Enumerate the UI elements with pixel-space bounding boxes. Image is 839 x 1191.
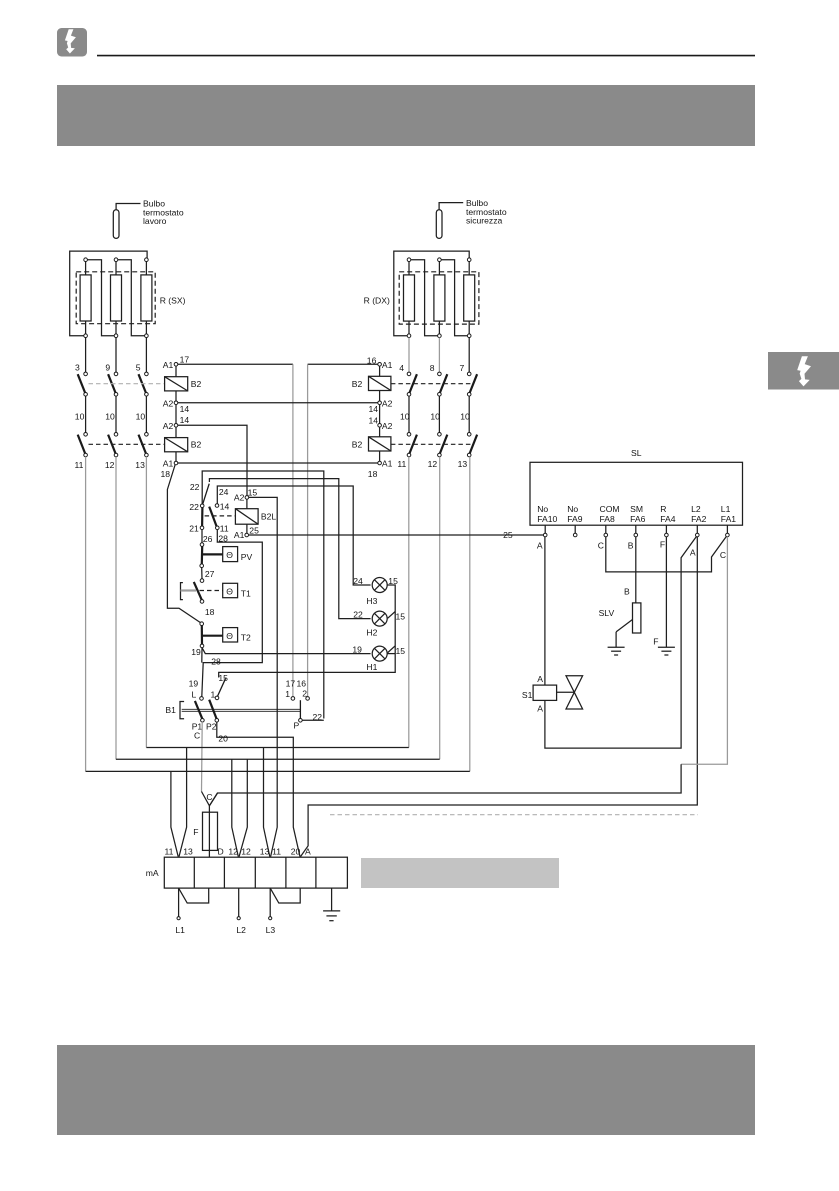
resistor R3 right bank — [464, 262, 475, 335]
wire net 18 drop (A1 left to T2 switch) — [167, 465, 201, 624]
dashed linkage right row1 — [391, 383, 473, 385]
svg-text:COM: COM — [600, 504, 620, 514]
svg-text:B2: B2 — [352, 440, 363, 450]
svg-text:FA10: FA10 — [537, 514, 557, 524]
thermal switch PV — [200, 530, 253, 579]
svg-text:A2: A2 — [382, 421, 393, 431]
svg-text:8: 8 — [430, 363, 435, 373]
svg-text:No: No — [537, 504, 548, 514]
svg-text:L3: L3 — [266, 925, 276, 935]
svg-text:L1: L1 — [721, 504, 731, 514]
wire drop net 13 to strip — [179, 748, 187, 857]
contactor pole 7 (right row1 col3) — [460, 363, 478, 396]
bulb thermostat lavoro (left sensor bulb) — [113, 199, 184, 239]
wire node P to net 22 riser — [302, 719, 324, 721]
svg-text:No: No — [567, 504, 578, 514]
svg-text:12: 12 — [241, 846, 251, 856]
svg-text:14: 14 — [369, 404, 379, 414]
svg-text:Θ: Θ — [226, 587, 233, 597]
svg-text:21: 21 — [189, 523, 199, 533]
jumper terminal 1-2 — [179, 888, 209, 903]
svg-text:A: A — [537, 674, 543, 684]
phase bus 3 (left 11 to right 13) — [86, 770, 470, 772]
wire net 16 (right A1 to B1 terminal 2) — [308, 363, 378, 365]
svg-text:B2: B2 — [352, 379, 363, 389]
switch blade 15 to terminal 1 — [217, 678, 225, 696]
svg-text:11: 11 — [397, 459, 406, 469]
svg-text:17: 17 — [180, 355, 190, 365]
svg-text:22: 22 — [190, 482, 200, 492]
svg-text:B2L: B2L — [261, 512, 277, 522]
node 1 (B1 pole 2 top) — [215, 696, 219, 700]
main switch B1 linkage bar — [182, 708, 301, 710]
dashed enclosure R (SX) — [76, 272, 155, 324]
svg-text:T2: T2 — [241, 633, 251, 643]
svg-text:A: A — [305, 846, 311, 856]
svg-text:C: C — [720, 550, 726, 560]
resistor bank R (DX) outer wiring loop — [394, 251, 469, 336]
wire right bank drops to contactor poles — [408, 338, 410, 373]
contactor pole 11 (right row2 col1) — [397, 433, 417, 469]
resistor bank R (SX) outer wiring loop — [70, 251, 147, 336]
svg-text:L2: L2 — [691, 504, 701, 514]
svg-text:11: 11 — [220, 523, 229, 533]
wire net L2 (FA2 to terminal strip A) — [301, 537, 698, 857]
dashed linkage to relay B2L — [205, 515, 236, 517]
pin FA2 — [690, 525, 699, 557]
svg-text:25: 25 — [503, 530, 513, 540]
svg-text:2: 2 — [302, 688, 307, 698]
svg-text:15: 15 — [396, 611, 406, 621]
pressure switch S1 — [522, 674, 557, 714]
svg-text:13: 13 — [135, 460, 145, 470]
right edge lightning tab — [768, 352, 839, 390]
terminal strip mA — [146, 857, 348, 888]
wire net 22 (switch 22 top to pole P riser) — [202, 471, 324, 719]
mains feed L3 — [266, 888, 276, 935]
solenoid valve coil SLV — [599, 603, 641, 633]
svg-text:A1: A1 — [163, 360, 174, 370]
svg-text:F: F — [193, 827, 198, 837]
wire drop net 13b to strip — [264, 748, 270, 857]
B1 pole P vertical blade — [299, 700, 301, 718]
wire net C (FA8 to FA1) — [606, 536, 727, 572]
svg-text:14: 14 — [180, 415, 190, 425]
svg-text:A: A — [537, 540, 543, 550]
pin FA10 — [537, 525, 547, 550]
node terminal 2 (net 16) — [306, 697, 310, 701]
header rule — [97, 55, 755, 57]
svg-text:13: 13 — [260, 846, 270, 856]
relay coil B2 left lower — [161, 427, 202, 479]
svg-text:SM: SM — [630, 504, 643, 514]
top gray banner — [57, 85, 755, 146]
svg-text:11: 11 — [165, 846, 174, 856]
wire net B (FA6 to valve SLV) — [635, 537, 637, 603]
svg-text:16: 16 — [367, 356, 377, 366]
node A2 lower right relay — [369, 405, 393, 431]
svg-text:FA9: FA9 — [567, 514, 583, 524]
wire top R1 to bottom R2 (right bank) — [411, 260, 438, 336]
wire net 15 (left A2 lower to B2L A2) — [178, 425, 247, 495]
wire net 22 blade feed to lamp H2 — [209, 479, 370, 619]
pin FA9 — [573, 525, 577, 537]
svg-text:16: 16 — [297, 679, 307, 689]
svg-text:A2: A2 — [163, 398, 174, 408]
pin FA6 — [628, 525, 638, 550]
svg-text:L: L — [192, 690, 197, 700]
svg-text:10: 10 — [136, 411, 146, 421]
svg-text:FA2: FA2 — [691, 514, 707, 524]
svg-text:R: R — [660, 504, 666, 514]
contactor pole 5 (left row1 col3) — [136, 363, 148, 397]
svg-text:20: 20 — [218, 734, 228, 744]
svg-text:20: 20 — [291, 846, 301, 856]
mains feed L1 — [175, 888, 185, 935]
contactor pole 3 (left row1 col1) — [75, 363, 87, 397]
wire net L1 black run — [210, 764, 681, 805]
ground (terminal strip) — [323, 888, 340, 921]
svg-text:5: 5 — [136, 363, 141, 373]
bottom gray banner — [57, 1045, 755, 1135]
svg-text:11: 11 — [272, 846, 281, 856]
svg-text:mA: mA — [146, 868, 159, 878]
wire right bank risers to phase buses — [408, 457, 410, 748]
svg-text:27: 27 — [205, 569, 215, 579]
auxiliary switch 14-11 — [209, 487, 229, 534]
svg-text:A: A — [537, 703, 543, 713]
svg-text:18: 18 — [368, 469, 378, 479]
svg-text:C: C — [206, 792, 212, 802]
node circles left bank bottom — [84, 334, 88, 338]
svg-text:22: 22 — [353, 609, 363, 619]
svg-text:9: 9 — [105, 363, 110, 373]
resistor R2 left bank — [111, 262, 122, 335]
wire net C (P1 to fuse) — [201, 722, 204, 792]
relay coil B2L — [234, 487, 277, 540]
svg-text:10: 10 — [460, 411, 470, 421]
pin FA4 — [660, 525, 668, 549]
svg-text:10: 10 — [75, 411, 85, 421]
svg-text:P2: P2 — [206, 722, 217, 732]
wire top R1 to bottom R2 (left bank) — [87, 260, 114, 336]
bulb thermostato sicurezza (right sensor bulb) — [436, 198, 507, 238]
svg-text:19: 19 — [352, 644, 362, 654]
contactor pole 13 (left row2 col3) — [135, 433, 148, 471]
svg-text:F: F — [660, 540, 665, 550]
contactor pole 13 (right row2 col3) — [458, 433, 478, 469]
ground (SLV) — [608, 632, 625, 655]
resistor R1 right bank — [404, 262, 415, 335]
lamp H3 — [353, 576, 398, 606]
svg-text:L1: L1 — [175, 925, 185, 935]
svg-text:B2: B2 — [191, 379, 202, 389]
strip pin labels — [165, 846, 312, 856]
wire top R2 to bottom R3 (left bank) — [118, 260, 145, 336]
svg-text:15: 15 — [248, 487, 258, 497]
svg-text:A1: A1 — [382, 360, 393, 370]
wire net F (FA4 to ground) — [665, 537, 667, 647]
svg-text:15: 15 — [218, 673, 228, 683]
svg-text:F: F — [653, 636, 658, 646]
phase bus 2 (left 12 to right 12) — [116, 758, 440, 760]
svg-text:4: 4 — [399, 363, 404, 373]
wire net 24 (switch 14 top to lamp H3) — [217, 486, 370, 585]
svg-text:FA1: FA1 — [721, 514, 737, 524]
svg-text:24: 24 — [353, 576, 363, 586]
svg-text:12: 12 — [428, 459, 438, 469]
dashed linkage right row2 — [391, 443, 473, 445]
svg-text:B: B — [624, 587, 630, 597]
svg-text:17: 17 — [286, 679, 296, 689]
thermostat switch T1 — [181, 568, 252, 617]
svg-text:sicurezza: sicurezza — [466, 216, 503, 226]
wire net 20 (P2 to terminal strip) — [217, 722, 300, 857]
svg-text:13: 13 — [183, 846, 193, 856]
svg-text:FA6: FA6 — [630, 514, 646, 524]
wire drop net 11 to strip — [171, 771, 178, 856]
svg-text:FA4: FA4 — [660, 514, 676, 524]
wire net 25 (B2L A1 to SL FA10) — [248, 534, 544, 536]
svg-text:T1: T1 — [241, 589, 251, 599]
svg-text:12: 12 — [228, 846, 238, 856]
wire net 14 (left A2 to right A2) — [178, 402, 378, 404]
wire net L1 (FA1 to fuse) gray run — [681, 537, 727, 764]
svg-text:19: 19 — [191, 647, 201, 657]
svg-text:1: 1 — [211, 690, 216, 700]
mains feed L2 — [236, 888, 246, 935]
main switch B1 bracket — [165, 702, 184, 719]
relay coil B2 left upper — [163, 355, 202, 414]
auxiliary switch 22-21 — [189, 482, 209, 533]
node P1 — [201, 719, 205, 723]
svg-text:Θ: Θ — [226, 631, 233, 641]
valve symbol (bowtie) — [557, 676, 583, 709]
wire net 15 (B2L A2 to terminal drop) — [249, 497, 278, 856]
svg-text:10: 10 — [105, 411, 115, 421]
wire net 18 (A1 lower bus between both lower relays) — [178, 462, 378, 464]
lamp H1 — [352, 644, 405, 672]
jumper terminal 4-5 — [270, 888, 300, 903]
pin FA8 — [598, 525, 608, 550]
dashed enclosure R (DX) — [399, 272, 479, 324]
B1 blade pole 1 — [195, 701, 202, 719]
wire net 19 (T2 bottom to lamp H1) — [202, 648, 371, 654]
svg-text:B: B — [628, 540, 634, 550]
lamp H2 — [353, 609, 405, 637]
svg-text:lavoro: lavoro — [143, 216, 167, 226]
contactor pole 12 (left row2 col2) — [105, 433, 118, 471]
svg-text:SLV: SLV — [599, 608, 615, 618]
svg-text:24: 24 — [219, 487, 229, 497]
svg-text:14: 14 — [369, 415, 379, 425]
svg-text:P: P — [294, 721, 300, 731]
svg-text:PV: PV — [241, 552, 253, 562]
fuse F — [193, 792, 217, 858]
wire net 28 (switch 11 loop to node L) — [202, 530, 262, 697]
control unit SL — [530, 448, 743, 525]
svg-text:28: 28 — [218, 534, 228, 544]
wire net A (FA10 to S1 to FA2) — [544, 537, 546, 685]
svg-text:B1: B1 — [165, 705, 176, 715]
thermostat switch T2 — [191, 622, 251, 657]
svg-text:A1: A1 — [163, 459, 174, 469]
wire H1 right lead — [387, 653, 395, 655]
dashed linkage left row1 — [89, 383, 165, 385]
svg-text:C: C — [194, 730, 200, 740]
wire drop net 12a to strip — [232, 759, 239, 856]
contactor pole 11 (left row2 col1) — [75, 433, 88, 471]
svg-text:SL: SL — [631, 448, 642, 458]
node L — [200, 697, 204, 701]
node P — [299, 719, 303, 723]
svg-text:3: 3 — [75, 363, 80, 373]
svg-text:7: 7 — [460, 363, 465, 373]
svg-text:15: 15 — [396, 646, 406, 656]
relay coil B2 right upper — [352, 356, 393, 414]
ground (F) — [658, 647, 675, 655]
dashed separator under SL — [330, 814, 698, 816]
svg-text:S1: S1 — [522, 690, 533, 700]
svg-text:10: 10 — [430, 411, 440, 421]
contactor pole 12 (right row2 col2) — [428, 433, 448, 469]
wire net 15 lamp common — [219, 585, 396, 678]
svg-text:14: 14 — [180, 404, 190, 414]
resistor R2 right bank — [434, 262, 445, 335]
svg-text:15: 15 — [388, 576, 398, 586]
wire left bank risers to phase buses — [85, 457, 87, 772]
wire 10 links left (row1 to row2) — [75, 396, 147, 432]
svg-text:A2: A2 — [382, 398, 393, 408]
node A2 lower left relay — [163, 405, 190, 431]
node P2 — [215, 719, 219, 723]
svg-text:A2: A2 — [234, 493, 245, 503]
svg-text:H1: H1 — [366, 662, 377, 672]
svg-text:R (DX): R (DX) — [364, 296, 390, 306]
svg-text:10: 10 — [400, 411, 410, 421]
header lightning icon — [57, 28, 87, 57]
svg-text:13: 13 — [458, 459, 468, 469]
node circles left bank top — [84, 258, 88, 262]
svg-text:D: D — [218, 846, 224, 856]
svg-text:C: C — [598, 540, 604, 550]
svg-text:H2: H2 — [366, 627, 377, 637]
svg-text:L2: L2 — [236, 925, 246, 935]
pin FA1 — [720, 525, 729, 560]
svg-text:A1: A1 — [234, 530, 245, 540]
contactor pole 4 (right row1 col1) — [399, 363, 417, 396]
node circles right bank bottom — [407, 334, 411, 338]
svg-text:22: 22 — [189, 502, 199, 512]
relay coil B2 right lower — [352, 427, 393, 479]
svg-text:26: 26 — [203, 534, 213, 544]
svg-text:B2: B2 — [191, 440, 202, 450]
contactor pole 9 (left row1 col2) — [105, 363, 117, 397]
wire left bank drops to contactor poles — [85, 338, 87, 373]
svg-text:28: 28 — [211, 656, 221, 666]
contactor pole 8 (right row1 col2) — [430, 363, 448, 396]
B1 blade pole 2 — [209, 700, 216, 719]
wire net 17 (left A1 to B1 terminal 1) — [178, 363, 293, 365]
svg-text:A: A — [690, 547, 696, 557]
wire net 15 stub to H1 — [388, 646, 396, 653]
svg-text:A1: A1 — [382, 459, 393, 469]
svg-text:Θ: Θ — [226, 550, 233, 560]
svg-text:14: 14 — [220, 502, 230, 512]
node terminal 1 (net 17) — [291, 697, 295, 701]
svg-text:25: 25 — [249, 525, 259, 535]
svg-text:R (SX): R (SX) — [160, 296, 186, 306]
phase bus 1 (left 13 to right 11) — [146, 747, 408, 749]
dashed linkage left row2 — [89, 443, 165, 445]
svg-text:18: 18 — [161, 469, 171, 479]
svg-text:H3: H3 — [366, 596, 377, 606]
wire top R2 to bottom R3 (right bank) — [441, 260, 467, 336]
svg-text:18: 18 — [205, 607, 215, 617]
gray label box near terminal strip — [361, 858, 559, 888]
wire drop net 12b to strip — [239, 759, 247, 856]
resistor R1 left bank — [80, 262, 91, 335]
wire net 15 stub to H2 — [388, 612, 396, 619]
wire 10 links right (row1 to row2) — [400, 396, 470, 432]
svg-text:19: 19 — [189, 679, 199, 689]
svg-text:11: 11 — [75, 460, 84, 470]
svg-text:12: 12 — [105, 460, 115, 470]
resistor R3 left bank — [141, 262, 152, 335]
svg-text:A2: A2 — [163, 421, 174, 431]
svg-text:1: 1 — [285, 689, 290, 699]
wire net 19 drop to node L — [201, 648, 203, 663]
node circles right bank top — [407, 258, 411, 262]
svg-text:FA8: FA8 — [600, 514, 616, 524]
